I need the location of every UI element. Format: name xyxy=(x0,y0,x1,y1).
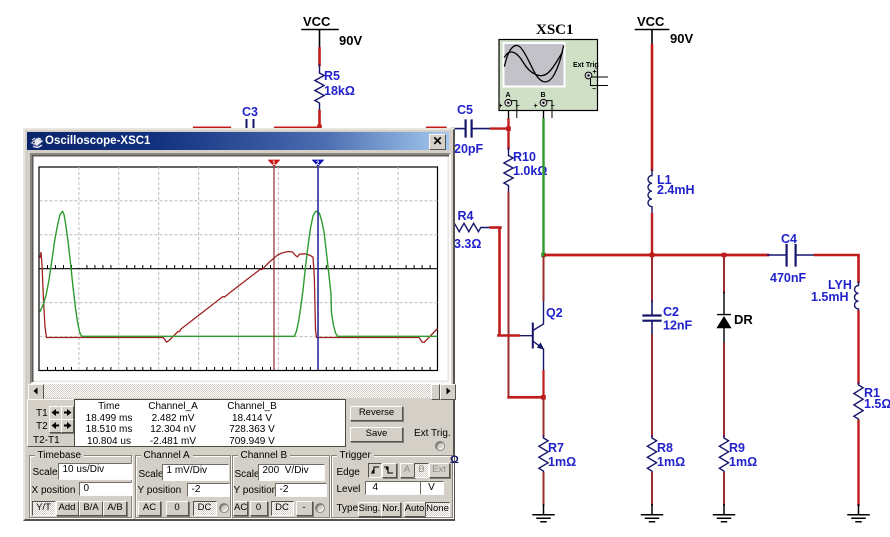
resistor R5 xyxy=(315,65,324,111)
power VCC (left) xyxy=(302,30,338,49)
svg-text:R9: R9 xyxy=(729,441,745,455)
wire C5 to node A xyxy=(491,127,509,129)
svg-text:+: + xyxy=(593,69,597,76)
Reverse button xyxy=(350,406,403,421)
wire R10 to emitter node (dark) xyxy=(508,193,510,397)
wire top bus left segment xyxy=(194,126,230,128)
wire DR to R9 xyxy=(723,344,725,437)
diode DR xyxy=(718,293,730,344)
svg-text:R5: R5 xyxy=(324,69,340,83)
svg-text:Q2: Q2 xyxy=(546,306,563,320)
capacitor C5 xyxy=(452,121,491,137)
resistor R4 xyxy=(452,223,491,231)
svg-text:1.5mH: 1.5mH xyxy=(811,290,849,304)
wire node to R10 xyxy=(507,129,509,149)
wire mid bus xyxy=(546,254,769,257)
svg-text:20pF: 20pF xyxy=(454,142,484,156)
wire L1 to bus xyxy=(651,214,653,254)
svg-text:A: A xyxy=(506,92,511,99)
resistor R1 xyxy=(854,383,863,421)
power VCC (right) xyxy=(636,30,669,46)
svg-text:XSC1: XSC1 xyxy=(536,22,574,38)
node label fragment omega xyxy=(450,454,459,466)
ground (R7) xyxy=(533,505,554,522)
wire bus to DR (dark) xyxy=(723,257,725,293)
wire base to R4 branch xyxy=(498,229,518,336)
trace channel B (green) xyxy=(40,211,438,336)
node junction DR/bus xyxy=(722,253,727,258)
svg-text:1mΩ: 1mΩ xyxy=(657,455,685,469)
svg-text:18kΩ: 18kΩ xyxy=(324,84,355,98)
svg-text:−: − xyxy=(551,103,555,110)
svg-text:R4: R4 xyxy=(458,209,474,223)
bottom border ticks xyxy=(48,367,431,370)
trace channel A (red) xyxy=(40,252,438,343)
readout T-block xyxy=(27,399,76,447)
inductor LYH xyxy=(854,282,858,312)
wire C2 to R8 xyxy=(651,335,653,436)
capacitor C2 xyxy=(644,301,661,335)
svg-text:−: − xyxy=(516,103,520,110)
svg-text:C5: C5 xyxy=(457,103,473,117)
wire emitter (red) xyxy=(542,371,544,396)
wire R5 to node xyxy=(318,111,321,127)
svg-text:R10: R10 xyxy=(513,150,536,164)
svg-text:VCC: VCC xyxy=(637,14,665,29)
wire top bus mid segment xyxy=(275,126,318,128)
wire scope B terminal down (green) xyxy=(543,107,545,120)
oscilloscope window Oscilloscope-XSC1 xyxy=(23,128,455,521)
ground (R8) xyxy=(642,505,663,522)
wire R7 to ground xyxy=(543,473,545,505)
groupbox Timebase xyxy=(29,455,132,518)
wire emitter node to R7 xyxy=(543,399,545,436)
ground (R1) xyxy=(848,505,869,522)
inductor L1 xyxy=(648,170,652,214)
wire collector (dark) xyxy=(543,257,545,301)
resistor R10 xyxy=(504,149,513,193)
wire top bus right segment xyxy=(427,126,446,128)
node junction A/C5/R10 xyxy=(506,126,511,131)
wire scope A terminal down xyxy=(508,107,510,120)
svg-text:R8: R8 xyxy=(657,441,673,455)
wire C4 to right column xyxy=(815,255,859,282)
svg-text:1mΩ: 1mΩ xyxy=(729,455,757,469)
svg-text:DR: DR xyxy=(734,312,753,327)
wire R1 to ground xyxy=(857,421,859,505)
wire bus to C2 (dark) xyxy=(651,257,653,301)
svg-text:3.3Ω: 3.3Ω xyxy=(454,237,481,251)
svg-text:470nF: 470nF xyxy=(770,271,806,285)
axis with ticks xyxy=(40,268,439,270)
svg-text:C3: C3 xyxy=(242,105,258,119)
svg-text:1mΩ: 1mΩ xyxy=(548,455,576,469)
wire R4 to corner xyxy=(491,226,501,229)
cursor T2 (blue) xyxy=(317,167,319,371)
wire R10-bottom to emitter node xyxy=(509,396,544,399)
Ext Trig label xyxy=(414,428,451,439)
svg-text:1.0kΩ: 1.0kΩ xyxy=(513,164,547,178)
wire R8 to ground xyxy=(651,473,653,505)
wire LYH to R1 xyxy=(857,312,859,384)
plot frame xyxy=(39,167,438,371)
wire VCC2 to L1 xyxy=(651,45,654,170)
node junction green bus xyxy=(541,253,546,258)
ground (R9) xyxy=(714,505,735,522)
grid vertical dashed xyxy=(79,167,398,370)
svg-text:C2: C2 xyxy=(663,305,679,319)
svg-text:1.5Ω: 1.5Ω xyxy=(864,397,890,411)
resistor R9 xyxy=(719,436,728,473)
svg-text:C4: C4 xyxy=(781,232,797,246)
wire VCC to R5 xyxy=(318,49,321,66)
node junction L1/bus xyxy=(650,253,655,258)
cursor T1 (red) xyxy=(273,167,275,371)
resistor R7 xyxy=(539,436,548,473)
wire R9 to ground xyxy=(723,473,725,505)
svg-text:−: − xyxy=(592,86,596,93)
scrollbar xyxy=(28,384,450,398)
svg-text:+: + xyxy=(499,103,503,110)
capacitor C3 xyxy=(247,120,254,135)
svg-text:2.4mH: 2.4mH xyxy=(657,183,695,197)
node junction R5/bus xyxy=(317,125,322,130)
grid horizontal dashed xyxy=(40,201,439,337)
oscilloscope XSC1 icon xyxy=(499,40,608,118)
readout values box xyxy=(74,399,346,447)
svg-text:90V: 90V xyxy=(670,31,693,46)
resistor R8 xyxy=(647,436,656,473)
svg-text:Ext Trig: Ext Trig xyxy=(573,62,599,69)
Save button xyxy=(350,427,403,442)
transistor Q2 xyxy=(518,301,544,372)
svg-text:R7: R7 xyxy=(548,441,564,455)
svg-text:VCC: VCC xyxy=(303,14,331,29)
groupbox Trigger xyxy=(331,455,453,518)
capacitor C4 xyxy=(768,245,815,266)
groupbox Channel A xyxy=(135,455,231,518)
svg-text:12nF: 12nF xyxy=(663,319,693,333)
node junction emitter xyxy=(541,395,546,400)
svg-text:B: B xyxy=(541,92,546,99)
svg-text:+: + xyxy=(534,103,538,110)
groupbox Channel B xyxy=(232,455,330,518)
svg-text:90V: 90V xyxy=(339,33,362,48)
